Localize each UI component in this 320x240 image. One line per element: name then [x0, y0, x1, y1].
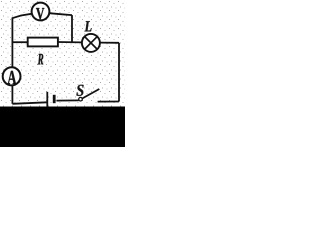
battery: short plate (negative): [53, 95, 56, 103]
voltmeter V: [32, 3, 50, 21]
ammeter A: [3, 67, 21, 85]
wire: left rail upper segment: [11, 18, 13, 67]
wire: right rail: [118, 43, 120, 102]
wire: left rail to resistor lead: [12, 41, 27, 43]
resistor R: [28, 38, 58, 65]
battery: long plate (positive): [46, 92, 48, 107]
wire: voltmeter to right corner of top branch: [49, 13, 72, 15]
wire: vertical branch down to main wire (node junction): [71, 15, 73, 42]
wire: bottom-right corner to switch: [98, 101, 119, 103]
wire: left rail lower segment: [11, 86, 13, 104]
lamp L: [82, 21, 100, 52]
wire: switch to battery: [56, 99, 78, 101]
wire: battery to bottom-left corner: [12, 102, 47, 104]
wire: lamp to top-right corner: [100, 42, 119, 44]
switch S: [76, 85, 99, 101]
wire: top-left corner to voltmeter: [12, 14, 31, 18]
wire: resistor to lamp: [58, 41, 82, 43]
